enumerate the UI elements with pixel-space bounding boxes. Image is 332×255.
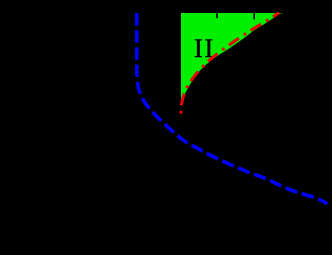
top axis tick 1	[216, 13, 218, 18]
red dash-dot transition curve	[181, 13, 279, 115]
blue dashed curve	[137, 13, 327, 204]
top axis tick 2	[253, 13, 255, 19]
region II green fill	[181, 13, 283, 102]
